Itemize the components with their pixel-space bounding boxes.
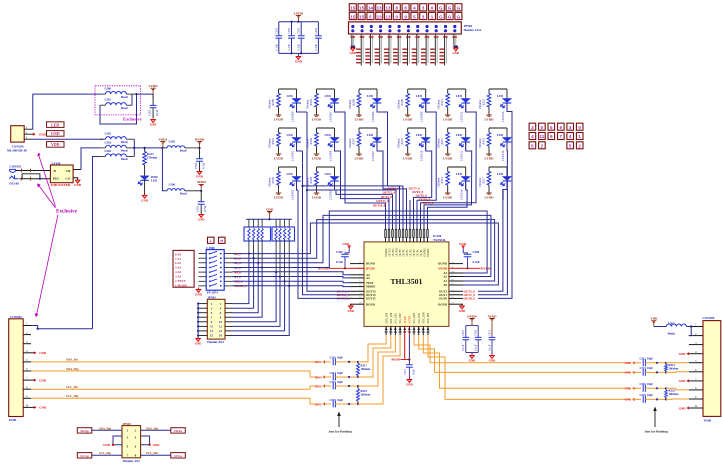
svg-text:Bead: Bead — [180, 149, 187, 153]
svg-text:LED515: LED515 — [501, 111, 505, 122]
svg-text:0.1uF: 0.1uF — [473, 260, 480, 264]
svg-text:GND: GND — [195, 293, 203, 297]
svg-text:LED: LED — [287, 172, 294, 176]
ground below C501 — [199, 215, 204, 218]
net box grid right of led matrix — [529, 123, 536, 130]
svg-text:C517: C517 — [404, 368, 407, 375]
annotation just for pushing right — [654, 409, 656, 427]
net label VDD box — [47, 142, 65, 148]
svg-text:C500: C500 — [194, 162, 198, 169]
ground right of JP500 wires — [454, 45, 456, 47]
svg-text:6: 6 — [560, 125, 563, 130]
ic left pin 17 OUT13 — [350, 290, 364, 292]
svg-text:5: 5 — [369, 14, 372, 19]
wires A4 A5 TEST MODE straight to chip — [233, 272, 351, 275]
svg-text:SCLn: SCLn — [174, 454, 182, 458]
svg-text:LED: LED — [416, 94, 423, 98]
ic bottom pin 4 SCL_DIP — [399, 326, 401, 335]
header JP500 pin pair 7 — [407, 25, 410, 28]
ic top pin 35 OUT8 — [402, 228, 404, 242]
net labels under JP500 — [356, 49, 361, 50]
CON502 pin 2 — [23, 334, 31, 336]
svg-text:6 A2: 6 A2 — [175, 261, 182, 265]
wire join inductor outputs — [133, 139, 135, 156]
svg-text:R516: R516 — [481, 137, 485, 144]
svg-text:100ohm: 100ohm — [361, 393, 371, 397]
net box top row2 0 — [393, 12, 400, 19]
svg-text:P10B: P10B — [704, 419, 712, 423]
led cell R514/LED514 — [448, 166, 466, 168]
svg-text:C503: C503 — [298, 27, 301, 34]
CON500 pin 6 — [689, 371, 703, 373]
svg-text:C504: C504 — [315, 27, 318, 34]
svg-text:L503: L503 — [105, 140, 112, 144]
svg-text:R509: R509 — [400, 98, 404, 105]
svg-text:LED514: LED514 — [460, 189, 464, 200]
svg-text:LED510: LED510 — [420, 150, 424, 161]
ic left pin 13 A4 — [350, 274, 364, 276]
svg-text:GND: GND — [195, 342, 203, 346]
switch element 8 — [209, 285, 211, 287]
wire JP502 pin4 to gnd — [141, 436, 150, 445]
svg-text:5: 5 — [550, 125, 553, 130]
wire below JP500 pin 11 — [444, 34, 446, 66]
svg-text:150ohm: 150ohm — [305, 99, 309, 110]
ic top pin 28 DGND — [427, 228, 429, 242]
annotation just for pushing left — [338, 414, 340, 427]
ic right pin 29 DVDD — [449, 267, 463, 269]
ic bottom pin 8 SCL_PIN — [418, 326, 420, 335]
svg-text:150ohm: 150ohm — [267, 177, 271, 188]
net box top row2 13 — [376, 12, 383, 19]
svg-text:L501: L501 — [105, 98, 112, 102]
led cell R504/LED504 — [317, 127, 335, 129]
svg-text:GND: GND — [51, 131, 60, 136]
wire below JP500 pin 4 — [379, 34, 381, 66]
svg-text:150ohm: 150ohm — [437, 138, 441, 149]
svg-text:C511: C511 — [488, 329, 491, 336]
svg-text:LED: LED — [325, 133, 332, 137]
ground below D500 — [142, 195, 147, 198]
header JP500 pin pair 10 — [435, 25, 438, 28]
svg-text:G: G — [457, 6, 461, 11]
wire CON502 pin1 — [31, 326, 93, 329]
svg-text:9: 9 — [550, 134, 553, 139]
svg-text:LED501: LED501 — [290, 150, 294, 161]
ic top pin 34 OUT7 — [406, 228, 408, 242]
CON502 pin 6 — [23, 370, 31, 372]
svg-text:LED: LED — [287, 94, 294, 98]
svg-text:R517: R517 — [481, 176, 485, 183]
svg-text:0: 0 — [396, 14, 399, 19]
svg-text:G: G — [457, 14, 461, 19]
svg-text:SDA_DIS: SDA_DIS — [385, 312, 388, 323]
CON500 pin 8 — [689, 389, 703, 391]
svg-text:16: 16 — [219, 334, 223, 338]
net box top row2 5 — [411, 12, 418, 19]
led cell R515/LED515 — [489, 88, 507, 90]
svg-text:G: G — [439, 14, 443, 19]
ic right pin 30 DGND — [449, 263, 463, 265]
svg-text:LVDD: LVDD — [403, 118, 413, 122]
led cell R507/LED507 — [359, 127, 377, 129]
ic top pin 38 OUT11 — [392, 228, 394, 242]
net box top row2 G — [455, 12, 462, 19]
svg-text:CON500: CON500 — [703, 316, 715, 320]
svg-text:3: 3 — [531, 125, 534, 130]
svg-text:Header 8X2: Header 8X2 — [207, 340, 224, 344]
pullup resistor 7 — [284, 219, 286, 227]
dc jack DC100 — [9, 175, 18, 178]
svg-text:GND: GND — [315, 375, 323, 379]
net box SDAn — [171, 428, 186, 433]
svg-text:C513: C513 — [330, 372, 337, 375]
svg-text:Just for Pushing: Just for Pushing — [644, 430, 668, 434]
CON502 pin 7 — [23, 379, 31, 381]
svg-text:15: 15 — [350, 6, 356, 11]
pullup resistor 6 — [279, 219, 281, 227]
svg-text:0.1uF: 0.1uF — [298, 44, 301, 51]
svg-text:LVDD: LVDD — [274, 118, 284, 122]
header JP500 pin pair 5 — [388, 25, 391, 28]
svg-text:SCL_DIN: SCL_DIN — [413, 313, 416, 324]
svg-text:C501: C501 — [275, 27, 278, 34]
ic bottom pin 1 SDA_DIS — [385, 326, 387, 335]
svg-text:LVDD: LVDD — [312, 118, 322, 122]
svg-text:13: 13 — [210, 329, 214, 333]
led cell R500/LED500 — [279, 88, 297, 90]
svg-text:LVDD: LVDD — [312, 196, 322, 200]
svg-text:LED502: LED502 — [290, 189, 294, 200]
svg-text:GND: GND — [153, 443, 161, 447]
svg-text:DGND: DGND — [438, 302, 448, 306]
svg-text:C509: C509 — [475, 329, 478, 336]
net label GND box — [47, 131, 65, 137]
wire DC100 to filter PIG — [19, 178, 50, 180]
net box top row1 G — [455, 4, 462, 11]
wire below JP500 pin 8 — [416, 34, 418, 66]
svg-text:GND: GND — [295, 60, 303, 64]
CON502 pin 9 — [23, 397, 31, 399]
svg-text:C516: C516 — [640, 383, 647, 386]
ic top pin 33 OUT6 — [409, 228, 411, 242]
svg-text:LED: LED — [367, 133, 374, 137]
led cell R516/LED516 — [489, 127, 507, 129]
svg-text:R500: R500 — [271, 98, 275, 105]
capacitor C501 at AVDD — [200, 191, 202, 202]
switch label box — [173, 250, 194, 287]
svg-text:GND: GND — [459, 242, 467, 246]
svg-text:R513: R513 — [440, 137, 444, 144]
svg-text:SCL_Dip: SCL_Dip — [66, 394, 79, 398]
svg-text:VDD1: VDD1 — [159, 137, 168, 141]
svg-text:OUT0_0: OUT0_0 — [464, 297, 476, 301]
svg-text:0.1uF: 0.1uF — [275, 44, 278, 51]
svg-text:150ohm: 150ohm — [267, 138, 271, 149]
svg-text:GND: GND — [347, 309, 355, 313]
svg-text:Bead: Bead — [121, 140, 128, 144]
svg-text:4: 4 — [531, 134, 534, 139]
svg-text:LVDD: LVDD — [484, 196, 494, 200]
net box top row2 15 — [349, 12, 356, 19]
header JP500 pin pair 1 — [351, 25, 354, 28]
svg-text:AVDD: AVDD — [197, 180, 207, 184]
ic top pin 29 DVDD — [423, 228, 425, 242]
svg-text:SDA_DIN: SDA_DIN — [423, 312, 426, 323]
switch element 2 — [209, 257, 211, 259]
wire below JP500 pin 7 — [407, 34, 409, 66]
pullup resistor 3 — [257, 219, 259, 227]
svg-text:LED504: LED504 — [328, 150, 332, 161]
svg-text:GND: GND — [150, 123, 158, 127]
svg-text:SCL_PIN: SCL_PIN — [418, 313, 421, 323]
ground at CON200 pin 2 — [31, 133, 35, 135]
svg-text:Header 12x2: Header 12x2 — [464, 28, 482, 32]
svg-text:2: 2 — [541, 144, 544, 149]
ground below capacitor bank — [297, 53, 299, 56]
orange staircase to chip bottom left — [358, 335, 386, 362]
tick marks on input wires — [21, 169, 23, 173]
svg-text:C502: C502 — [288, 27, 291, 34]
wire below JP500 pin 3 — [369, 34, 371, 66]
svg-text:CG: CG — [65, 177, 70, 181]
svg-text:R507: R507 — [351, 137, 355, 144]
capacitor C518 cluster — [632, 398, 634, 401]
led cell R512/LED512 — [448, 88, 466, 90]
ground below DVDD caps — [470, 356, 475, 359]
header JP500 pin pair 12 — [453, 25, 456, 28]
svg-text:TX55546: TX55546 — [433, 238, 446, 242]
svg-text:150ohm: 150ohm — [478, 138, 482, 149]
svg-text:GND: GND — [39, 133, 47, 137]
inductor L507 — [654, 326, 667, 328]
CON502 pin 8 — [23, 388, 31, 390]
ground below C500 — [197, 172, 202, 175]
ic right pin 21 DGND — [449, 303, 463, 305]
svg-text:C505: C505 — [148, 109, 152, 116]
svg-text:R501: R501 — [271, 137, 275, 144]
ground below AVDD cap — [490, 356, 495, 359]
svg-text:G: G — [439, 6, 443, 11]
svg-text:SCL_Din: SCL_Din — [146, 451, 158, 455]
svg-text:LED: LED — [497, 133, 504, 137]
svg-text:GND: GND — [452, 51, 460, 55]
wire L500 out to LVDD — [137, 93, 154, 95]
a-line loops A0-A3 — [233, 223, 499, 285]
ic bottom pin 9 SDA_DIN — [422, 326, 424, 335]
svg-text:LED: LED — [456, 133, 463, 137]
wire JP502 pin3 to gnd — [113, 436, 122, 445]
svg-text:GND: GND — [679, 406, 687, 410]
net box SCLn — [171, 453, 186, 458]
exclusive dashed box — [95, 86, 141, 115]
svg-text:LVDD: LVDD — [443, 157, 453, 161]
CON500 pin 7 — [689, 380, 703, 382]
svg-text:10pF: 10pF — [337, 357, 343, 360]
net box L — [208, 237, 215, 243]
svg-text:C510: C510 — [330, 357, 337, 360]
pullup resistor 5 — [275, 219, 277, 227]
svg-text:R504: R504 — [309, 137, 313, 144]
capacitor C507 — [465, 326, 467, 337]
svg-text:C512: C512 — [640, 358, 647, 361]
wires JP501 to pullup verticals — [233, 254, 249, 304]
net box top row2 1 — [429, 12, 436, 19]
CON502 pin 1 — [23, 325, 31, 327]
wire pullup top rail — [246, 218, 292, 220]
connector CON200 — [11, 126, 25, 142]
ic right pin 26 A1 — [449, 280, 463, 282]
resistor network RP501 — [272, 227, 295, 241]
svg-text:4.7uF: 4.7uF — [203, 205, 207, 212]
resistor R520 100ohm — [665, 388, 667, 390]
wire below JP500 pin 9 — [425, 34, 427, 66]
header JP500 — [349, 22, 462, 34]
svg-text:150ohm: 150ohm — [478, 177, 482, 188]
svg-text:R512: R512 — [440, 98, 444, 105]
jogs cluster to CON500 pins — [666, 362, 689, 364]
net box top row2 3 — [420, 12, 427, 19]
net box top row2 G — [446, 12, 453, 19]
led cell R505/LED505 — [317, 166, 335, 168]
svg-text:GND: GND — [625, 398, 633, 402]
svg-text:P10B: P10B — [9, 418, 17, 422]
svg-text:LVDD: LVDD — [443, 196, 453, 200]
svg-text:VDD: VDD — [650, 317, 658, 321]
wire below JP500 pin 1 — [351, 34, 353, 47]
net box H — [219, 237, 226, 243]
svg-text:R514: R514 — [440, 176, 444, 183]
svg-text:R505: R505 — [309, 176, 313, 183]
svg-text:GND: GND — [315, 360, 323, 364]
svg-text:SDA_DIP: SDA_DIP — [390, 312, 393, 323]
svg-text:GND: GND — [342, 242, 350, 246]
svg-text:EMI FILTER: EMI FILTER — [51, 183, 71, 187]
bundle col4 to top pins 10-12 — [421, 112, 477, 229]
svg-text:150ohm: 150ohm — [348, 138, 352, 149]
svg-text:GND: GND — [198, 218, 206, 222]
net box top row1 6 — [402, 4, 409, 11]
capacitor C500 at DVDD — [199, 148, 201, 159]
pullup resistor 4 — [261, 219, 263, 227]
wires top pins 3-4 to col0 bundle — [307, 190, 396, 228]
wire CON200 pin1 main rail — [31, 138, 103, 140]
svg-text:DGND: DGND — [427, 249, 430, 257]
net box top row1 G — [437, 4, 444, 11]
wire JP501 left common to ground — [197, 304, 199, 339]
svg-text:0.1uF: 0.1uF — [488, 344, 491, 351]
led cell R503/LED503 — [317, 88, 335, 90]
svg-text:R506: R506 — [351, 98, 355, 105]
net box top row2 5 — [367, 12, 374, 19]
capacitor C510 cluster — [323, 360, 325, 363]
svg-text:GND: GND — [349, 51, 357, 55]
svg-text:GND: GND — [679, 352, 687, 356]
net box SCLp — [77, 453, 92, 458]
ic left pin 12 DVDD — [350, 267, 364, 269]
ic top pin 30 OUT3 — [420, 228, 422, 242]
svg-text:LED: LED — [287, 133, 294, 137]
annotation arrow to DC input — [39, 185, 56, 208]
capacitor C509 — [477, 326, 479, 337]
svg-text:LED: LED — [497, 172, 504, 176]
svg-text:JP500: JP500 — [464, 24, 473, 28]
svg-text:100ohm: 100ohm — [669, 392, 679, 396]
net box top row2 15 — [358, 12, 365, 19]
wire VDD to pin2 — [689, 327, 691, 336]
switch element 4 — [209, 267, 211, 269]
svg-text:15: 15 — [350, 14, 356, 19]
capacitor C503 bank — [300, 22, 302, 36]
orange wire SDA_Dis — [31, 361, 318, 363]
svg-text:LED516: LED516 — [501, 150, 505, 161]
svg-text:SCL_Dip: SCL_Dip — [99, 451, 111, 455]
svg-text:LED: LED — [367, 94, 374, 98]
svg-text:OUT0: OUT0 — [439, 297, 448, 301]
net label LED box — [47, 122, 65, 128]
capacitor C517 AVDD — [406, 365, 413, 367]
svg-text:100ohm: 100ohm — [669, 367, 679, 371]
svg-text:150ohm: 150ohm — [147, 156, 158, 160]
net box top row1 0 — [429, 4, 436, 11]
svg-text:VDD: VDD — [51, 142, 60, 147]
svg-text:8 A0: 8 A0 — [175, 252, 182, 256]
svg-text:VDD: VDD — [266, 207, 274, 211]
svg-text:GND: GND — [315, 402, 323, 406]
svg-text:150ohm: 150ohm — [267, 99, 271, 110]
svg-text:LED513: LED513 — [460, 150, 464, 161]
net box top row1 4 — [411, 4, 418, 11]
capacitor C508 — [462, 248, 464, 253]
svg-text:SCL_DIP: SCL_DIP — [399, 313, 402, 324]
svg-text:SDA_PIN: SDA_PIN — [427, 313, 430, 324]
svg-text:7: 7 — [560, 134, 563, 139]
capacitor C501 bank — [278, 22, 280, 36]
svg-text:L506: L506 — [169, 183, 176, 187]
svg-text:14: 14 — [368, 6, 374, 11]
svg-text:OUT10_0: OUT10_0 — [373, 204, 386, 208]
svg-text:GND: GND — [489, 359, 497, 363]
ic bottom pin 3 SCL_DIS — [394, 326, 396, 335]
svg-text:GND: GND — [469, 359, 477, 363]
svg-text:OUT3_0: OUT3_0 — [423, 201, 435, 205]
svg-text:150ohm: 150ohm — [397, 99, 401, 110]
svg-text:Beads: Beads — [668, 332, 677, 336]
svg-text:L500: L500 — [105, 87, 112, 91]
CON500 pin 10 — [689, 407, 703, 409]
svg-text:10: 10 — [219, 320, 223, 324]
svg-text:4: 4 — [569, 134, 572, 139]
led cell R509/LED509 — [408, 88, 426, 90]
ic U500 THL3501 body — [364, 242, 449, 327]
svg-text:G: G — [448, 14, 452, 19]
ground below switch label box — [198, 288, 200, 290]
ic left pin 18 OUT14 — [350, 294, 364, 296]
wire CON501 to filter B — [16, 170, 51, 172]
svg-text:AVDD: AVDD — [404, 316, 407, 323]
svg-text:Header 4X2: Header 4X2 — [123, 459, 140, 463]
svg-text:LVDD: LVDD — [484, 118, 494, 122]
svg-text:1: 1 — [431, 14, 434, 19]
svg-text:150ohm: 150ohm — [397, 138, 401, 149]
net box top row2 G — [437, 12, 444, 19]
svg-text:10pF: 10pF — [337, 381, 343, 384]
svg-text:4.7uF: 4.7uF — [201, 162, 205, 169]
ground left of JP500 wires — [351, 45, 353, 47]
capacitor C514 cluster — [632, 371, 634, 374]
header JP500 pin pair 8 — [416, 25, 419, 28]
svg-text:10pF: 10pF — [647, 383, 653, 386]
